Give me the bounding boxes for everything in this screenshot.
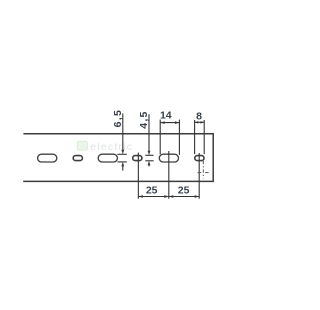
dimension 6,5 upper arrow — [121, 150, 124, 155]
svg-text:6,5: 6,5 — [112, 109, 124, 128]
dimension 14 dimension line — [160, 122, 179, 124]
dimension 6,5 label — [112, 109, 124, 128]
dimension 14 arrows — [160, 121, 165, 124]
dimension 4,5 upper leader line — [148, 114, 150, 152]
slot F (small oblong hole) — [195, 156, 204, 161]
watermark logo square — [77, 141, 87, 150]
svg-text:25: 25 — [178, 184, 190, 196]
svg-text:4,5: 4,5 — [138, 110, 150, 129]
dimension 14 extension line right — [178, 120, 180, 155]
dimension 8 arrows — [195, 121, 199, 124]
rail right end edge — [212, 133, 214, 182]
slot E (large oblong hole) — [159, 154, 178, 162]
pitch extension line through slot F — [198, 153, 200, 199]
slot A (large oblong hole) — [38, 154, 57, 162]
slot C (large oblong hole) — [98, 154, 117, 162]
svg-text:25: 25 — [146, 184, 158, 196]
rail bottom edge line — [23, 180, 214, 182]
slot B (small oblong hole) — [73, 156, 82, 161]
dimension 25 dimension line — [138, 196, 199, 198]
dimension 8 dimension line — [195, 121, 205, 123]
dimension 25 arrows — [138, 195, 142, 198]
rail top edge line — [23, 133, 213, 135]
pitch extension line through slot E — [168, 151, 170, 199]
hidden hole center mark horizontal dashed — [198, 172, 202, 174]
svg-text:14: 14 — [160, 110, 172, 122]
pitch extension line through slot D — [137, 153, 139, 199]
dimension 8 extension line right — [203, 120, 205, 154]
dimension 4,5 lower leader line with arrow — [148, 163, 150, 166]
svg-text:electric: electric — [90, 141, 133, 153]
hidden hole center mark vertical dashed — [202, 161, 204, 179]
dimension 4,5 label — [138, 110, 150, 129]
dimension 6,5 extension ticks — [117, 153, 126, 155]
dimension 8 extension line left — [194, 120, 196, 154]
dimension 6,5 upper leader line — [122, 114, 124, 152]
svg-text:8: 8 — [196, 110, 202, 122]
slot D (small oblong hole) — [133, 156, 142, 161]
dimension 14 extension line left — [159, 120, 161, 155]
dimension 4,5 extension ticks — [145, 154, 153, 156]
dimension 4,5 upper arrow — [148, 151, 151, 156]
dimension 6,5 lower leader line with arrow — [122, 165, 124, 171]
